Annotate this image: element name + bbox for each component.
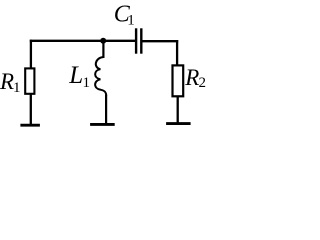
svg-text:L: L [68,62,83,89]
wire R1 bottom lead [30,94,32,126]
svg-text:2: 2 [199,75,207,91]
wire R2 bottom lead [177,96,179,124]
ground under R2 [166,122,191,125]
wire top rail right segment [142,40,179,42]
svg-text:1: 1 [127,13,135,29]
resistor R2 [173,65,184,96]
wire left vertical (top corner to R1) [30,40,32,69]
wire right vertical (corner to R2) [176,40,178,65]
label R1 [0,69,21,96]
resistor R1 [25,68,34,93]
capacitor C1 left plate [135,28,137,53]
label L1 [68,62,90,91]
node junction dot [100,38,106,44]
label C1 [114,2,135,29]
svg-text:R: R [0,69,14,94]
svg-text:1: 1 [83,75,91,91]
svg-text:R: R [184,65,199,90]
ground under R1 [20,124,40,127]
capacitor C1 right plate [140,28,142,53]
svg-text:1: 1 [13,80,21,96]
wire junction to L1 top [102,41,104,58]
wire top rail left segment [30,40,136,42]
wire L1 bottom lead [105,95,107,125]
inductor L1 coil [95,57,106,96]
label R2 [184,65,206,91]
ground under L1 [90,123,115,126]
